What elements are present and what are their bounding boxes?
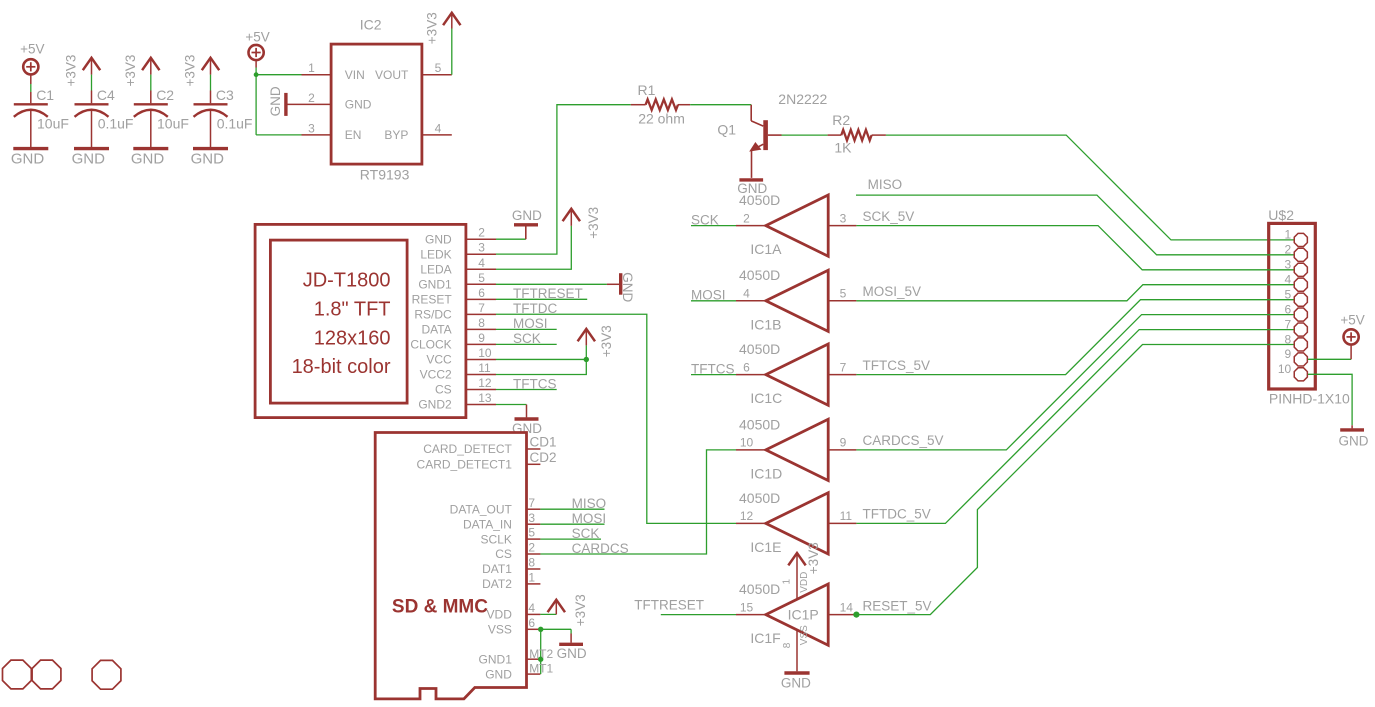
svg-text:JD-T1800: JD-T1800 bbox=[303, 269, 391, 291]
svg-text:VSS: VSS bbox=[488, 623, 512, 637]
svg-text:5: 5 bbox=[840, 287, 847, 301]
svg-text:15: 15 bbox=[740, 600, 754, 614]
svg-text:8: 8 bbox=[478, 316, 485, 330]
svg-text:RESET: RESET bbox=[412, 293, 453, 307]
svg-text:7: 7 bbox=[528, 496, 535, 510]
svg-text:+5V: +5V bbox=[1340, 313, 1364, 328]
svg-text:4050D: 4050D bbox=[739, 341, 780, 357]
svg-text:SCK_5V: SCK_5V bbox=[863, 209, 915, 224]
svg-text:6: 6 bbox=[478, 286, 485, 300]
svg-text:CARDCS_5V: CARDCS_5V bbox=[863, 433, 944, 448]
svg-text:10: 10 bbox=[478, 346, 492, 360]
svg-text:2: 2 bbox=[528, 541, 535, 555]
svg-text:+3V3: +3V3 bbox=[586, 207, 601, 239]
svg-text:1.8" TFT: 1.8" TFT bbox=[314, 299, 391, 321]
svg-text:CARD_DETECT1: CARD_DETECT1 bbox=[417, 458, 513, 472]
svg-text:GND: GND bbox=[620, 272, 635, 302]
svg-text:GND2: GND2 bbox=[418, 398, 452, 412]
svg-text:4050D: 4050D bbox=[739, 416, 780, 432]
svg-text:18-bit color: 18-bit color bbox=[292, 356, 391, 378]
svg-text:TFTCS_5V: TFTCS_5V bbox=[863, 358, 931, 373]
svg-text:GND: GND bbox=[425, 232, 452, 246]
svg-text:0.1uF: 0.1uF bbox=[98, 115, 134, 131]
svg-text:VOUT: VOUT bbox=[375, 68, 409, 82]
svg-text:3: 3 bbox=[840, 211, 847, 225]
svg-text:7: 7 bbox=[478, 301, 485, 315]
svg-text:5: 5 bbox=[478, 271, 485, 285]
svg-text:DATA: DATA bbox=[421, 323, 451, 337]
svg-text:RS/DC: RS/DC bbox=[414, 308, 452, 322]
svg-text:12: 12 bbox=[478, 376, 492, 390]
svg-text:SCK: SCK bbox=[691, 212, 719, 227]
svg-text:CLOCK: CLOCK bbox=[410, 338, 451, 352]
svg-text:4: 4 bbox=[478, 256, 485, 270]
svg-text:GND1: GND1 bbox=[479, 652, 513, 666]
svg-text:CARDCS: CARDCS bbox=[572, 541, 629, 556]
svg-text:GND: GND bbox=[781, 675, 811, 690]
svg-text:IC1B: IC1B bbox=[750, 316, 781, 332]
svg-text:+3V3: +3V3 bbox=[599, 325, 614, 357]
svg-text:MISO: MISO bbox=[868, 177, 903, 192]
svg-text:3: 3 bbox=[528, 511, 535, 525]
svg-text:GND: GND bbox=[72, 150, 106, 167]
svg-text:4: 4 bbox=[435, 121, 442, 135]
svg-text:4050D: 4050D bbox=[739, 490, 780, 506]
svg-text:GND: GND bbox=[191, 150, 225, 167]
svg-text:+3V3: +3V3 bbox=[183, 55, 198, 87]
svg-text:+5V: +5V bbox=[245, 29, 269, 44]
svg-text:CD2: CD2 bbox=[530, 450, 557, 465]
svg-text:VDD: VDD bbox=[487, 608, 513, 622]
svg-text:3: 3 bbox=[1285, 258, 1292, 272]
svg-text:CARD_DETECT: CARD_DETECT bbox=[423, 442, 512, 456]
svg-text:7: 7 bbox=[840, 360, 847, 374]
svg-text:128x160: 128x160 bbox=[314, 327, 391, 349]
svg-text:C3: C3 bbox=[216, 87, 234, 103]
svg-text:Q1: Q1 bbox=[717, 121, 736, 137]
svg-text:9: 9 bbox=[478, 331, 485, 345]
svg-text:+3V3: +3V3 bbox=[806, 542, 821, 574]
svg-text:10uF: 10uF bbox=[157, 115, 189, 131]
svg-text:11: 11 bbox=[840, 509, 853, 523]
svg-text:+3V3: +3V3 bbox=[64, 55, 79, 87]
svg-text:+3V3: +3V3 bbox=[573, 594, 588, 626]
svg-text:1: 1 bbox=[308, 61, 315, 75]
svg-text:C4: C4 bbox=[97, 87, 115, 103]
svg-text:DATA_IN: DATA_IN bbox=[463, 517, 512, 531]
svg-text:5: 5 bbox=[435, 61, 442, 75]
svg-text:R2: R2 bbox=[832, 112, 850, 128]
svg-text:4050D: 4050D bbox=[739, 267, 780, 283]
svg-text:IC1E: IC1E bbox=[750, 539, 781, 555]
svg-text:RESET_5V: RESET_5V bbox=[863, 598, 932, 613]
svg-text:BYP: BYP bbox=[384, 128, 408, 142]
svg-text:VCC: VCC bbox=[426, 353, 452, 367]
svg-text:LEDK: LEDK bbox=[420, 247, 451, 261]
svg-text:6: 6 bbox=[1285, 302, 1292, 316]
svg-text:2N2222: 2N2222 bbox=[778, 91, 827, 107]
svg-text:IC1C: IC1C bbox=[750, 390, 782, 406]
svg-text:2: 2 bbox=[478, 226, 485, 240]
svg-text:SD & MMC: SD & MMC bbox=[392, 596, 488, 617]
svg-text:GND: GND bbox=[345, 98, 372, 112]
svg-text:IC1A: IC1A bbox=[750, 241, 782, 257]
svg-text:EN: EN bbox=[345, 128, 362, 142]
svg-text:+3V3: +3V3 bbox=[424, 12, 439, 44]
svg-text:0.1uF: 0.1uF bbox=[217, 115, 253, 131]
svg-text:6: 6 bbox=[528, 616, 535, 630]
svg-text:4: 4 bbox=[528, 601, 535, 615]
svg-text:LEDA: LEDA bbox=[420, 262, 451, 276]
svg-text:RT9193: RT9193 bbox=[360, 167, 410, 183]
svg-text:1: 1 bbox=[1285, 228, 1292, 242]
svg-text:8: 8 bbox=[1285, 332, 1292, 346]
svg-text:1K: 1K bbox=[834, 140, 852, 156]
svg-text:DATA_OUT: DATA_OUT bbox=[450, 502, 513, 516]
svg-text:12: 12 bbox=[740, 509, 754, 523]
svg-text:MOSI: MOSI bbox=[513, 316, 548, 331]
svg-text:GND: GND bbox=[131, 150, 165, 167]
svg-text:IC2: IC2 bbox=[360, 17, 382, 33]
svg-text:GND: GND bbox=[512, 208, 542, 223]
svg-text:7: 7 bbox=[1285, 317, 1292, 331]
svg-text:1: 1 bbox=[528, 571, 535, 585]
svg-text:R1: R1 bbox=[638, 82, 656, 98]
svg-text:+5V: +5V bbox=[20, 42, 44, 57]
svg-text:CS: CS bbox=[435, 383, 452, 397]
svg-text:IC1D: IC1D bbox=[750, 466, 782, 482]
svg-text:VSS: VSS bbox=[799, 625, 810, 645]
svg-text:9: 9 bbox=[1285, 347, 1292, 361]
svg-text:5: 5 bbox=[528, 526, 535, 540]
svg-text:TFTDC: TFTDC bbox=[513, 301, 557, 316]
svg-text:8: 8 bbox=[528, 556, 535, 570]
svg-text:MT2: MT2 bbox=[529, 647, 553, 661]
svg-text:2: 2 bbox=[308, 91, 315, 105]
svg-text:DAT2: DAT2 bbox=[482, 577, 512, 591]
svg-text:TFTCS: TFTCS bbox=[691, 361, 735, 376]
svg-text:TFTRESET: TFTRESET bbox=[634, 597, 704, 612]
svg-text:TFTRESET: TFTRESET bbox=[513, 286, 583, 301]
svg-text:TFTCS: TFTCS bbox=[513, 376, 557, 391]
svg-text:MT1: MT1 bbox=[529, 662, 553, 676]
svg-text:GND1: GND1 bbox=[418, 277, 452, 291]
svg-text:TFTDC_5V: TFTDC_5V bbox=[863, 507, 931, 522]
svg-text:3: 3 bbox=[308, 121, 315, 135]
svg-text:C2: C2 bbox=[156, 87, 174, 103]
svg-text:10: 10 bbox=[740, 436, 754, 450]
svg-text:2: 2 bbox=[743, 211, 750, 225]
svg-text:13: 13 bbox=[478, 391, 492, 405]
svg-text:1: 1 bbox=[781, 579, 792, 585]
svg-text:GND: GND bbox=[485, 667, 512, 681]
svg-text:VIN: VIN bbox=[345, 68, 365, 82]
svg-text:14: 14 bbox=[840, 600, 854, 614]
svg-text:8: 8 bbox=[782, 642, 793, 648]
svg-text:9: 9 bbox=[840, 436, 847, 450]
svg-text:4050D: 4050D bbox=[739, 581, 780, 597]
svg-text:GND: GND bbox=[557, 646, 587, 661]
svg-text:GND: GND bbox=[268, 86, 283, 116]
svg-text:6: 6 bbox=[743, 360, 750, 374]
svg-text:MOSI_5V: MOSI_5V bbox=[863, 284, 922, 299]
svg-text:4: 4 bbox=[743, 287, 750, 301]
svg-text:VCC2: VCC2 bbox=[420, 368, 452, 382]
svg-text:PINHD-1X10: PINHD-1X10 bbox=[1269, 391, 1350, 407]
svg-text:SCK: SCK bbox=[572, 526, 600, 541]
svg-text:GND: GND bbox=[11, 150, 45, 167]
svg-text:CS: CS bbox=[495, 547, 512, 561]
svg-text:MISO: MISO bbox=[572, 496, 607, 511]
svg-text:11: 11 bbox=[478, 361, 491, 375]
svg-text:2: 2 bbox=[1285, 243, 1292, 257]
svg-text:GND: GND bbox=[1339, 433, 1369, 448]
svg-text:22 ohm: 22 ohm bbox=[638, 110, 685, 126]
svg-text:SCLK: SCLK bbox=[481, 532, 512, 546]
svg-text:CD1: CD1 bbox=[530, 435, 557, 450]
svg-text:MOSI: MOSI bbox=[572, 511, 607, 526]
svg-text:10uF: 10uF bbox=[37, 115, 69, 131]
svg-text:5: 5 bbox=[1285, 287, 1292, 301]
svg-text:MOSI: MOSI bbox=[691, 288, 726, 303]
svg-text:SCK: SCK bbox=[513, 331, 541, 346]
svg-text:IC1F: IC1F bbox=[750, 630, 780, 646]
svg-text:10: 10 bbox=[1278, 362, 1292, 376]
svg-text:U$2: U$2 bbox=[1268, 207, 1294, 223]
svg-text:DAT1: DAT1 bbox=[482, 562, 512, 576]
svg-text:4050D: 4050D bbox=[739, 192, 780, 208]
svg-text:3: 3 bbox=[478, 241, 485, 255]
svg-text:4: 4 bbox=[1285, 273, 1292, 287]
svg-text:IC1P: IC1P bbox=[788, 607, 819, 623]
svg-text:+3V3: +3V3 bbox=[123, 55, 138, 87]
svg-text:C1: C1 bbox=[36, 87, 54, 103]
